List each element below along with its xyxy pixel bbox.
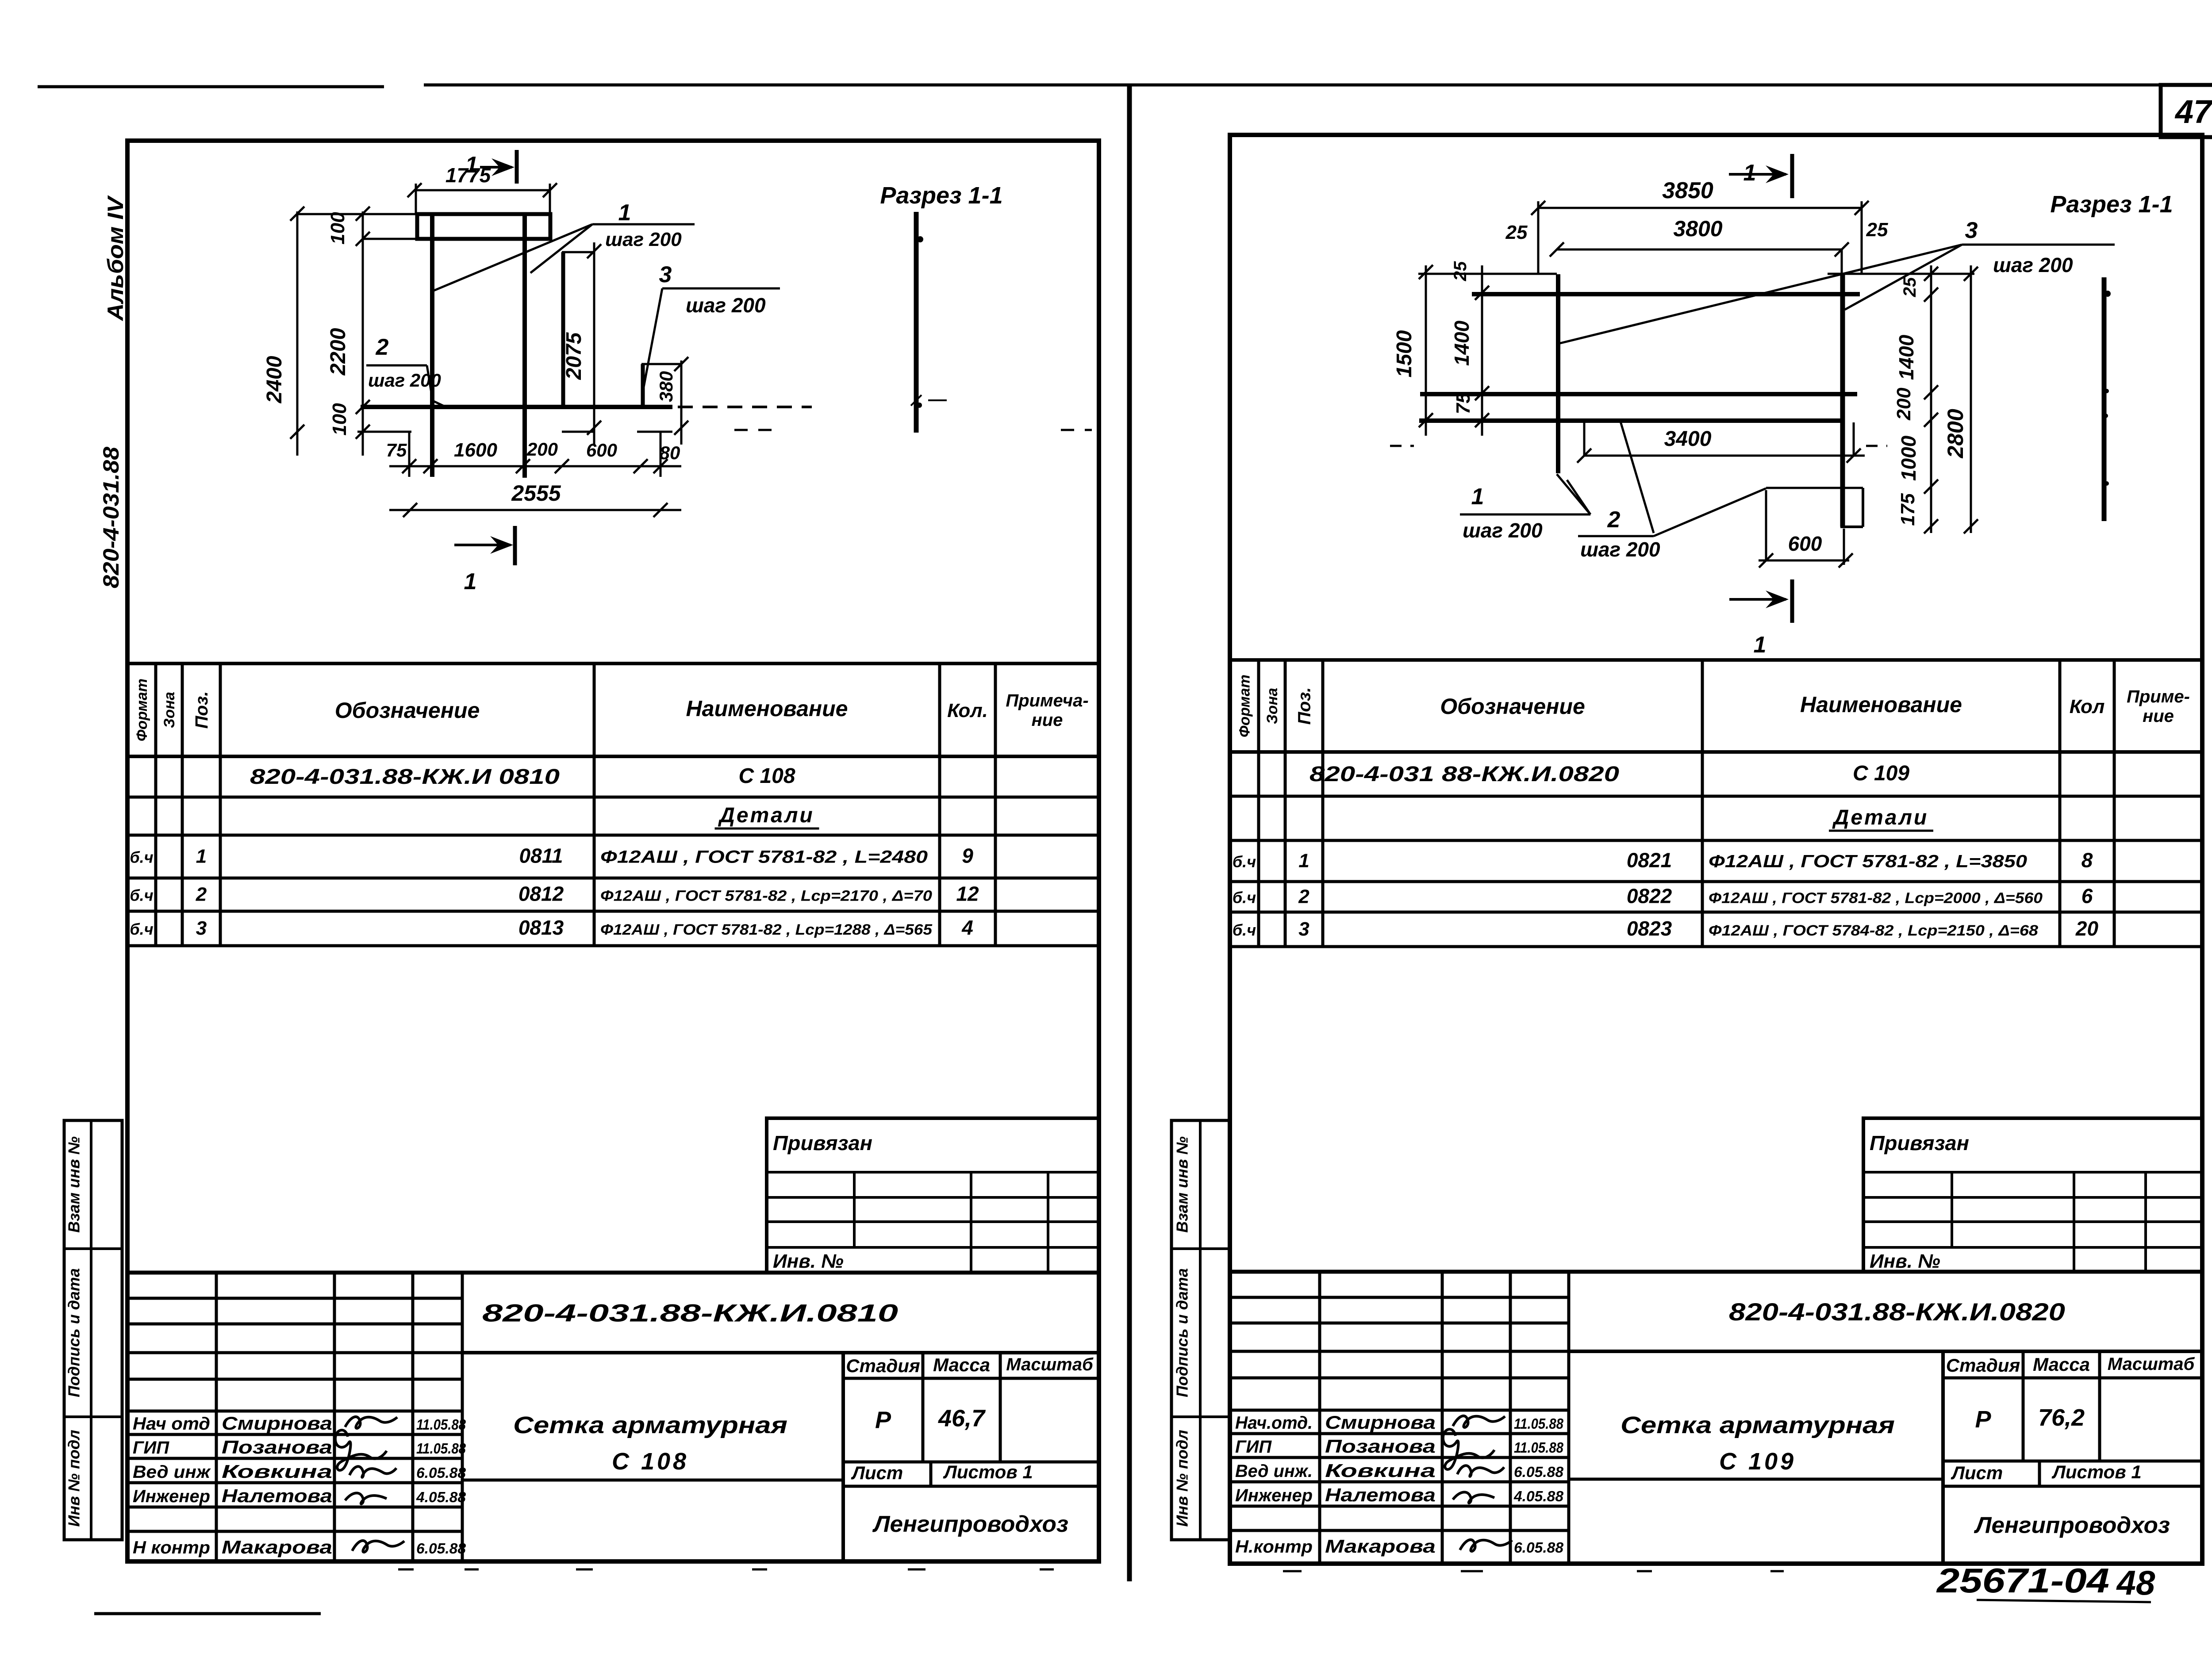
svg-text:Взам инв №: Взам инв № bbox=[65, 1136, 83, 1233]
right strip section line 2 bbox=[1171, 1415, 1230, 1418]
svg-text:0813: 0813 bbox=[518, 916, 564, 939]
left dim 2075 vertical bbox=[593, 242, 595, 445]
svg-text:Зона: Зона bbox=[161, 692, 178, 728]
svg-text:0821: 0821 bbox=[1627, 849, 1672, 872]
svg-text:Ленгипроводхоз: Ленгипроводхоз bbox=[872, 1511, 1068, 1537]
svg-text:11.05.88: 11.05.88 bbox=[1514, 1415, 1564, 1432]
svg-text:Формат: Формат bbox=[134, 679, 150, 741]
svg-text:2200: 2200 bbox=[326, 328, 350, 376]
svg-text:Стадия: Стадия bbox=[1946, 1355, 2020, 1376]
right sheet frame bbox=[1230, 135, 2202, 1564]
svg-text:ние: ние bbox=[2143, 706, 2174, 726]
svg-text:3850: 3850 bbox=[1662, 178, 1713, 203]
svg-text:3: 3 bbox=[1965, 218, 1978, 243]
svg-text:48: 48 bbox=[2116, 1563, 2155, 1602]
svg-text:3: 3 bbox=[1298, 918, 1309, 940]
svg-text:Листов 1: Листов 1 bbox=[943, 1461, 1033, 1482]
svg-text:Инв. №: Инв. № bbox=[1870, 1250, 1940, 1272]
svg-text:б.ч: б.ч bbox=[130, 848, 153, 867]
left mesh top bar extension lines bbox=[298, 213, 417, 215]
svg-text:Кол.: Кол. bbox=[947, 700, 988, 721]
right strip divider vertical bbox=[1199, 1120, 1202, 1540]
left bottom section mark 1 bbox=[454, 544, 511, 546]
svg-text:1: 1 bbox=[618, 200, 631, 226]
right Привязан box grid bbox=[1863, 1171, 2202, 1174]
svg-text:С 109: С 109 bbox=[1853, 762, 1909, 785]
svg-text:б.ч: б.ч bbox=[1233, 921, 1256, 939]
svg-text:Н.контр: Н.контр bbox=[1235, 1537, 1313, 1557]
svg-text:С 109: С 109 bbox=[1719, 1448, 1796, 1475]
svg-text:46,7: 46,7 bbox=[938, 1405, 986, 1432]
right title block top line bbox=[1230, 1270, 2202, 1274]
svg-text:Налетова: Налетова bbox=[222, 1485, 332, 1506]
right mesh top extension line left bbox=[1418, 273, 1557, 275]
svg-text:0822: 0822 bbox=[1627, 885, 1672, 908]
svg-text:Ф12АШ , ГОСТ 5781-82 , L=3850: Ф12АШ , ГОСТ 5781-82 , L=3850 bbox=[1709, 852, 2027, 871]
svg-text:3400: 3400 bbox=[1664, 427, 1712, 451]
svg-text:Масштаб: Масштаб bbox=[1006, 1355, 1094, 1374]
right title block vertical lines left part bbox=[1318, 1272, 1321, 1564]
right strip section line 1 bbox=[1171, 1247, 1230, 1250]
svg-text:47: 47 bbox=[2174, 93, 2212, 130]
svg-text:Стадия: Стадия bbox=[846, 1355, 920, 1376]
right mesh right rebar bbox=[1840, 274, 1845, 527]
left section view bar bbox=[914, 212, 919, 433]
svg-text:2: 2 bbox=[376, 334, 389, 360]
svg-text:Сетка арматурная: Сетка арматурная bbox=[513, 1412, 787, 1438]
svg-text:6: 6 bbox=[2081, 885, 2093, 908]
svg-text:25671-04: 25671-04 bbox=[1936, 1561, 2109, 1600]
left title block vertical lines left part bbox=[215, 1273, 218, 1561]
svg-text:8: 8 bbox=[2081, 849, 2093, 872]
left dim 380 vertical bbox=[680, 361, 683, 445]
svg-text:25: 25 bbox=[1451, 261, 1470, 281]
svg-text:1: 1 bbox=[465, 152, 478, 178]
svg-text:4.05.88: 4.05.88 bbox=[416, 1489, 466, 1505]
left rebar 3 (2075 vertical) bbox=[561, 252, 565, 407]
left sheet frame bbox=[127, 141, 1099, 1561]
page top edge line (left segment) bbox=[38, 85, 384, 88]
right table vertical lines bbox=[1257, 660, 1260, 947]
left title block right part lines bbox=[462, 1351, 1099, 1354]
svg-text:С 108: С 108 bbox=[738, 764, 795, 788]
svg-text:Сетка арматурная: Сетка арматурная bbox=[1621, 1412, 1895, 1438]
svg-text:1000: 1000 bbox=[1897, 435, 1920, 481]
svg-text:Примеча-: Примеча- bbox=[1006, 691, 1088, 710]
svg-text:3: 3 bbox=[659, 262, 672, 288]
right dim 3850 bbox=[1538, 207, 1862, 209]
svg-text:200: 200 bbox=[526, 439, 558, 460]
left signature scribbles bbox=[345, 1417, 397, 1428]
svg-text:Смирнова: Смирнова bbox=[1325, 1412, 1436, 1433]
svg-text:Детали: Детали bbox=[1832, 806, 1929, 829]
svg-text:Формат: Формат bbox=[1237, 675, 1253, 737]
svg-text:Ковкина: Ковкина bbox=[222, 1461, 332, 1482]
right section view bar bbox=[2102, 277, 2107, 521]
svg-text:Зона: Зона bbox=[1264, 688, 1281, 724]
left axis dashes right of mesh bbox=[734, 429, 772, 431]
svg-text:Приме-: Приме- bbox=[2127, 687, 2190, 706]
svg-text:Н контр: Н контр bbox=[133, 1538, 210, 1557]
svg-text:3: 3 bbox=[196, 917, 207, 939]
svg-text:Нач.отд.: Нач.отд. bbox=[1235, 1413, 1313, 1433]
svg-text:75: 75 bbox=[1452, 392, 1474, 414]
right mesh top extension line right bbox=[1828, 273, 1974, 275]
svg-text:С 108: С 108 bbox=[612, 1448, 689, 1475]
right dim 2800 vertical bbox=[1970, 265, 1972, 533]
left table horizontal lines bbox=[127, 662, 1099, 665]
right dim 600 bbox=[1759, 560, 1849, 562]
svg-text:Ф12АШ , ГОСТ 5781-82 , Lср=128: Ф12АШ , ГОСТ 5781-82 , Lср=1288 , Δ=565 bbox=[600, 921, 933, 938]
svg-text:Подпись и дата: Подпись и дата bbox=[65, 1268, 83, 1397]
left rebar 2 (long vertical) bbox=[522, 215, 527, 478]
svg-text:820-4-031.88: 820-4-031.88 bbox=[99, 447, 123, 588]
svg-text:Инв № подл: Инв № подл bbox=[1173, 1430, 1191, 1526]
left mesh bottom bar thick line bbox=[361, 405, 672, 409]
svg-text:80: 80 bbox=[660, 442, 680, 463]
right mesh middle bar 1 bbox=[1420, 392, 1857, 396]
svg-text:100: 100 bbox=[329, 403, 350, 436]
svg-text:ние: ние bbox=[1032, 710, 1063, 730]
svg-text:0812: 0812 bbox=[518, 882, 564, 905]
svg-text:25: 25 bbox=[1505, 222, 1528, 243]
left section view small arrow bbox=[928, 399, 947, 401]
svg-text:1: 1 bbox=[1298, 850, 1309, 872]
svg-text:шаг 200: шаг 200 bbox=[1993, 253, 2073, 276]
svg-text:0811: 0811 bbox=[519, 844, 563, 867]
svg-text:шаг 200: шаг 200 bbox=[1580, 538, 1660, 561]
svg-text:Лист: Лист bbox=[851, 1462, 903, 1483]
left strip divider vertical bbox=[90, 1120, 92, 1540]
svg-text:Ф12АШ , ГОСТ 5781-82 , Lср=200: Ф12АШ , ГОСТ 5781-82 , Lср=2000 , Δ=560 bbox=[1709, 890, 2043, 907]
svg-text:380: 380 bbox=[656, 371, 676, 402]
svg-text:Альбом IV: Альбом IV bbox=[103, 195, 128, 322]
svg-text:175: 175 bbox=[1897, 493, 1919, 526]
svg-text:Позанова: Позанова bbox=[1325, 1436, 1436, 1457]
svg-text:Ф12АШ , ГОСТ 5781-82 , L=2480: Ф12АШ , ГОСТ 5781-82 , L=2480 bbox=[600, 848, 928, 867]
right mesh left rebar bbox=[1556, 274, 1560, 473]
left table vertical lines bbox=[154, 663, 157, 946]
scan noise dashes under left sheet bbox=[398, 1569, 414, 1571]
svg-text:Инв № подл: Инв № подл bbox=[65, 1430, 83, 1526]
underline of archive number bbox=[1977, 1600, 2151, 1602]
right Привязан box outline bbox=[1863, 1118, 2202, 1272]
svg-text:12: 12 bbox=[956, 882, 979, 905]
svg-text:820-4-031.88-КЖ.И.0820: 820-4-031.88-КЖ.И.0820 bbox=[1729, 1298, 2065, 1326]
right signature scribbles bbox=[1453, 1416, 1505, 1427]
svg-text:Обозначение: Обозначение bbox=[335, 698, 480, 723]
svg-text:Разрез 1-1: Разрез 1-1 bbox=[880, 182, 1002, 209]
svg-text:Инв. №: Инв. № bbox=[773, 1250, 844, 1272]
right title block left rows bbox=[1230, 1296, 1569, 1299]
svg-text:ГИП: ГИП bbox=[1235, 1437, 1272, 1457]
svg-text:2555: 2555 bbox=[511, 481, 561, 506]
svg-text:Макарова: Макарова bbox=[1325, 1536, 1436, 1557]
svg-text:2: 2 bbox=[1298, 886, 1310, 908]
svg-text:Масса: Масса bbox=[2033, 1354, 2090, 1375]
svg-text:Ленгипроводхоз: Ленгипроводхоз bbox=[1974, 1513, 2170, 1538]
left title block left rows bbox=[127, 1297, 462, 1300]
svg-text:820-4-031 88-КЖ.И.0820: 820-4-031 88-КЖ.И.0820 bbox=[1310, 763, 1619, 786]
left mesh bottom bar dashed continuation bbox=[678, 406, 812, 408]
svg-text:1: 1 bbox=[1754, 632, 1767, 658]
svg-text:Взам инв №: Взам инв № bbox=[1173, 1136, 1191, 1233]
svg-text:1400: 1400 bbox=[1895, 334, 1918, 380]
svg-text:Привязан: Привязан bbox=[1870, 1131, 1969, 1154]
right mesh top bar bbox=[1472, 292, 1860, 296]
svg-text:20: 20 bbox=[2075, 917, 2099, 940]
svg-text:Поз.: Поз. bbox=[192, 691, 211, 729]
right dim 3400 bbox=[1584, 455, 1865, 457]
left margin underline of IV bbox=[127, 196, 130, 224]
svg-text:Ф12АШ , ГОСТ 5784-82 , Lср=215: Ф12АШ , ГОСТ 5784-82 , Lср=2150 , Δ=68 bbox=[1709, 922, 2038, 939]
svg-text:600: 600 bbox=[1788, 532, 1822, 555]
page number box 47 bbox=[2161, 85, 2212, 137]
right dim 3800 with 25 ends bbox=[1557, 249, 1842, 251]
left mesh bottom bar thin bottom edge segments bbox=[357, 431, 411, 433]
svg-text:б.ч: б.ч bbox=[1233, 853, 1256, 871]
left dim 2555 horizontal bbox=[389, 509, 681, 511]
svg-text:Вед инж: Вед инж bbox=[133, 1462, 211, 1482]
left Привязан box outline bbox=[767, 1118, 1099, 1273]
svg-text:11.05.88: 11.05.88 bbox=[416, 1440, 466, 1457]
svg-text:Позанова: Позанова bbox=[222, 1437, 332, 1457]
svg-text:0823: 0823 bbox=[1627, 917, 1672, 940]
svg-text:3800: 3800 bbox=[1673, 216, 1722, 241]
right sheet margin strip box bbox=[1171, 1120, 1230, 1540]
svg-text:9: 9 bbox=[962, 844, 973, 867]
svg-text:200: 200 bbox=[1893, 387, 1915, 421]
svg-text:Инженер: Инженер bbox=[133, 1487, 210, 1506]
left dim 1775 horizontal bbox=[415, 189, 550, 192]
svg-text:1: 1 bbox=[196, 846, 207, 867]
left bottom dim chain 75-1600-200-600-80 bbox=[389, 465, 681, 468]
svg-text:6.05.88: 6.05.88 bbox=[416, 1540, 466, 1557]
svg-text:2800: 2800 bbox=[1943, 409, 1968, 458]
right bottom section mark 1 bbox=[1729, 598, 1786, 601]
svg-text:4: 4 bbox=[961, 916, 973, 939]
svg-text:б.ч: б.ч bbox=[130, 886, 153, 905]
right dim 25-1400-75 vertical bbox=[1481, 265, 1483, 436]
svg-text:Вед инж.: Вед инж. bbox=[1235, 1461, 1313, 1481]
svg-text:Обозначение: Обозначение bbox=[1440, 694, 1585, 719]
svg-text:76,2: 76,2 bbox=[2038, 1404, 2085, 1431]
svg-text:Привязан: Привязан bbox=[773, 1131, 872, 1154]
svg-text:Масштаб: Масштаб bbox=[2108, 1354, 2195, 1374]
left title block top line bbox=[127, 1271, 1099, 1275]
svg-text:2400: 2400 bbox=[263, 356, 286, 403]
svg-text:25: 25 bbox=[1900, 277, 1920, 297]
svg-text:б.ч: б.ч bbox=[130, 920, 153, 938]
left rebar 1 (long vertical) bbox=[430, 214, 434, 477]
svg-text:100: 100 bbox=[327, 212, 349, 245]
svg-text:1: 1 bbox=[464, 569, 477, 594]
svg-text:Налетова: Налетова bbox=[1325, 1484, 1436, 1505]
svg-text:820-4-031.88-КЖ.И.0810: 820-4-031.88-КЖ.И.0810 bbox=[482, 1299, 898, 1327]
svg-text:Наименование: Наименование bbox=[686, 696, 848, 721]
svg-text:2: 2 bbox=[196, 884, 207, 905]
svg-text:Лист: Лист bbox=[1951, 1462, 2003, 1483]
svg-text:600: 600 bbox=[586, 440, 617, 460]
svg-text:6.05.88: 6.05.88 bbox=[1514, 1464, 1564, 1480]
svg-text:Подпись и дата: Подпись и дата bbox=[1173, 1268, 1191, 1397]
page top edge line (right segment) bbox=[424, 84, 2212, 87]
left mesh top bar bbox=[417, 214, 550, 239]
svg-text:2075: 2075 bbox=[562, 332, 586, 380]
svg-text:1400: 1400 bbox=[1450, 320, 1473, 366]
svg-text:6.05.88: 6.05.88 bbox=[1514, 1539, 1564, 1556]
svg-text:Наименование: Наименование bbox=[1800, 692, 1962, 717]
right dim 1500 vertical bbox=[1425, 265, 1427, 436]
svg-text:б.ч: б.ч bbox=[1233, 889, 1256, 907]
left dim 2400 vertical bbox=[296, 211, 299, 456]
svg-text:1500: 1500 bbox=[1393, 330, 1416, 377]
svg-text:2: 2 bbox=[1607, 507, 1621, 533]
svg-text:1600: 1600 bbox=[454, 439, 497, 461]
svg-text:Макарова: Макарова bbox=[222, 1537, 332, 1557]
svg-text:6.05.88: 6.05.88 bbox=[416, 1465, 466, 1481]
svg-text:Р: Р bbox=[875, 1407, 891, 1434]
left rebar hook (380 vertical) bbox=[641, 364, 645, 407]
left strip section line 1 bbox=[64, 1247, 122, 1250]
right dim column 25-1400-200-1000-175 bbox=[1930, 265, 1932, 533]
svg-text:Смирнова: Смирнова bbox=[222, 1413, 332, 1434]
svg-text:11.05.88: 11.05.88 bbox=[1514, 1439, 1564, 1456]
svg-text:Детали: Детали bbox=[718, 804, 814, 827]
page bottom edge segment bbox=[94, 1612, 321, 1615]
svg-text:Кол: Кол bbox=[2070, 696, 2105, 717]
right table horizontal lines bbox=[1230, 658, 2202, 662]
svg-text:75: 75 bbox=[386, 440, 407, 460]
svg-text:Листов 1: Листов 1 bbox=[2051, 1461, 2142, 1482]
centre fold divider line between sheets bbox=[1127, 86, 1132, 1581]
svg-text:Р: Р bbox=[1975, 1406, 1991, 1433]
svg-text:Разрез 1-1: Разрез 1-1 bbox=[2050, 191, 2173, 218]
left Привязан box grid bbox=[767, 1171, 1099, 1174]
svg-text:4.05.88: 4.05.88 bbox=[1513, 1488, 1564, 1504]
svg-text:шаг 200: шаг 200 bbox=[605, 229, 682, 250]
svg-text:Масса: Масса bbox=[933, 1354, 990, 1375]
right axis dashes bbox=[1390, 445, 1414, 447]
right mesh bottom step bbox=[1766, 487, 1863, 489]
svg-text:25: 25 bbox=[1866, 219, 1888, 241]
svg-text:Инженер: Инженер bbox=[1235, 1486, 1313, 1505]
svg-text:Ф12АШ , ГОСТ 5781-82 , Lср=217: Ф12АШ , ГОСТ 5781-82 , Lср=2170 , Δ=70 bbox=[600, 888, 932, 905]
svg-text:шаг 200: шаг 200 bbox=[686, 294, 766, 317]
svg-text:ГИП: ГИП bbox=[133, 1438, 169, 1457]
svg-text:Нач отд: Нач отд bbox=[133, 1414, 210, 1434]
left strip section line 2 bbox=[64, 1415, 122, 1418]
svg-text:Поз.: Поз. bbox=[1295, 687, 1314, 725]
svg-text:Ковкина: Ковкина bbox=[1325, 1460, 1436, 1481]
left dim 100-2200-100 vertical bbox=[362, 211, 364, 456]
left sheet margin strip box bbox=[64, 1120, 122, 1540]
svg-text:820-4-031.88-КЖ.И 0810: 820-4-031.88-КЖ.И 0810 bbox=[250, 765, 560, 789]
right title block right part lines bbox=[1569, 1350, 2202, 1353]
svg-text:11.05.88: 11.05.88 bbox=[416, 1416, 466, 1433]
right mesh middle bar 2 bbox=[1419, 418, 1843, 423]
svg-text:шаг 200: шаг 200 bbox=[1463, 519, 1543, 542]
scan noise dashes under right sheet bbox=[1283, 1570, 1302, 1572]
svg-text:1: 1 bbox=[1471, 484, 1484, 510]
